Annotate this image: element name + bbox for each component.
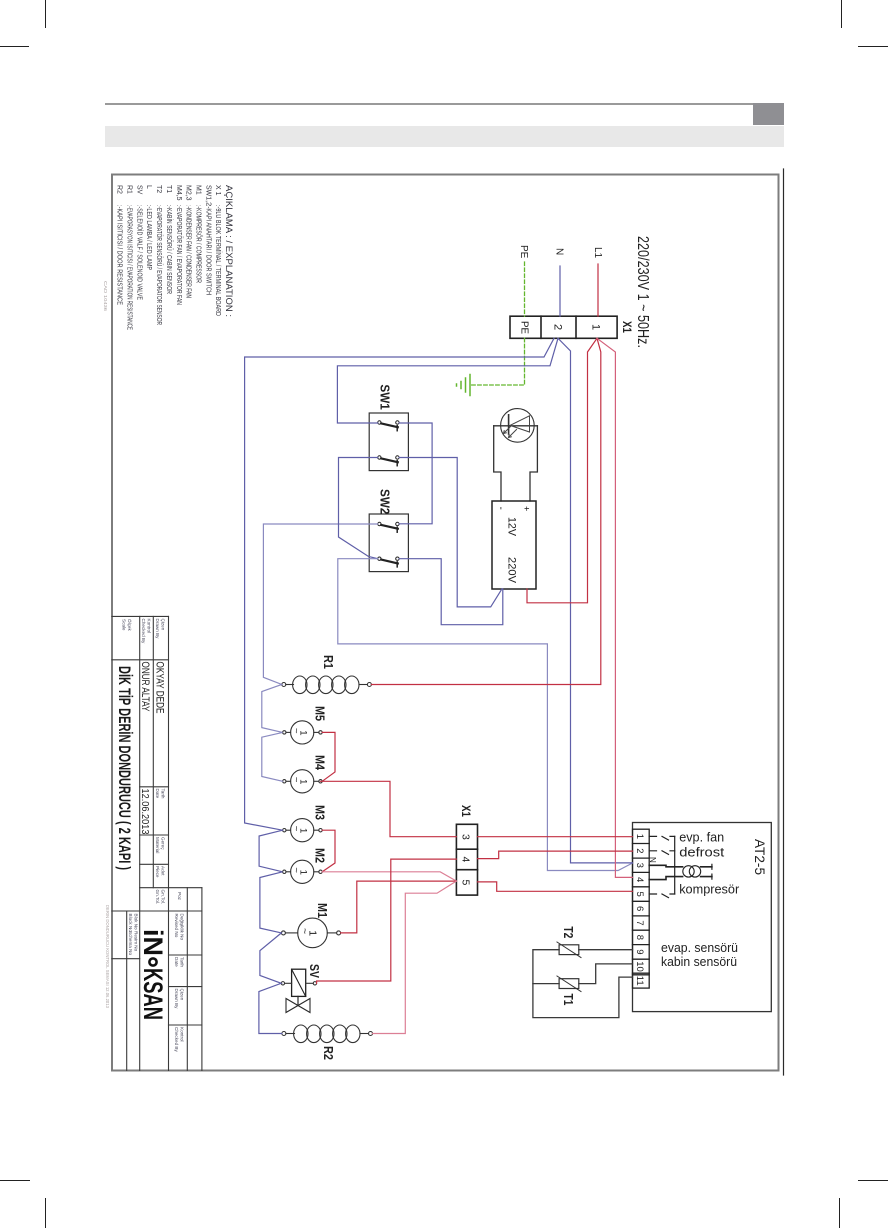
svg-text:Schema No: Schema No [128, 931, 133, 955]
battery 12V/220V box [492, 501, 536, 589]
wire SW1 pole2 to battery lamp loop [399, 458, 502, 607]
wire T2 T1 common to terminal 11 [533, 950, 633, 1018]
title block field labels [122, 619, 185, 1053]
svg-text:M2,3: M2,3 [185, 185, 192, 201]
svg-text:PE: PE [519, 321, 530, 334]
svg-text:M4: M4 [313, 755, 327, 770]
svg-text::-EVAPORASYON ISITICISI / EVAP: :-EVAPORASYON ISITICISI / EVAPORATION RE… [126, 205, 133, 330]
svg-text:DİK TİP DERİN DONDURUCU ( 2 KA: DİK TİP DERİN DONDURUCU ( 2 KAPI ) [115, 666, 134, 870]
relay contact for terminal 5 [649, 894, 675, 898]
crop mark top-left horizontal [0, 46, 29, 47]
svg-text:ONUR ALTAY: ONUR ALTAY [139, 662, 151, 712]
svg-text:Piece: Piece [155, 866, 160, 878]
svg-text:R2: R2 [321, 1046, 335, 1060]
svg-text:T2: T2 [155, 185, 162, 193]
lamp holder outline [530, 426, 537, 501]
transformer primary leads from terminals 3 and 4 [649, 865, 682, 867]
svg-text:Kontrol: Kontrol [147, 619, 152, 634]
header dark box [753, 103, 784, 125]
svg-text::-KAPI ANAHTARI / DOOR SWITCH: :-KAPI ANAHTARI / DOOR SWITCH [204, 205, 211, 295]
drawing sheet frame [112, 175, 779, 1071]
crop mark top-right vertical [841, 0, 842, 28]
svg-text:M3: M3 [313, 805, 327, 820]
SW1 pole 1 contact [378, 421, 399, 431]
wire N X1-2 to motor chain bus [245, 338, 554, 830]
svg-text:Poz: Poz [177, 892, 182, 901]
svg-text:+: + [522, 506, 532, 511]
LED symbol triangle [510, 416, 530, 432]
svg-text:R1: R1 [126, 185, 133, 194]
page edge line [783, 169, 785, 1075]
crop mark top-left vertical [45, 0, 46, 28]
svg-text:M4,5: M4,5 [175, 185, 182, 201]
svg-text:~: ~ [291, 867, 302, 873]
svg-text:4: 4 [634, 877, 645, 882]
svg-text:L: L [145, 185, 152, 189]
svg-text:12.06.2013: 12.06.2013 [139, 789, 151, 835]
SW2 pole 1 contact [378, 522, 399, 532]
motor M4 [283, 770, 323, 793]
svg-text:Checked By: Checked By [141, 619, 146, 644]
header light band [105, 126, 784, 147]
svg-text:SV: SV [135, 185, 142, 195]
AT2-5 terminal strip [633, 829, 650, 988]
svg-text:Tarih: Tarih [180, 957, 185, 967]
controller AT2-5 box [633, 823, 772, 1012]
svg-text:Adet: Adet [161, 866, 166, 876]
INOKSAN logo [138, 929, 168, 1020]
svg-text:SW1: SW1 [378, 384, 392, 409]
motor M1 compressor [281, 918, 340, 948]
title block grid lines [112, 616, 202, 1070]
svg-text:Material: Material [155, 837, 160, 853]
svg-text:M2: M2 [313, 848, 327, 863]
wire R2 to X1-5 [373, 881, 457, 1033]
wire T1 to AT2-5 terminal 10 [579, 964, 633, 984]
svg-text:6: 6 [634, 906, 645, 911]
svg-text:M5: M5 [313, 706, 327, 721]
wire X1-4 to AT2-5 terminal 2 [478, 851, 633, 859]
wire SW1 pole1 to SW2 pole1 [399, 423, 432, 524]
crop mark top-right horizontal [858, 46, 888, 47]
svg-text:3: 3 [460, 834, 472, 840]
svg-text:evp. fan: evp. fan [679, 830, 724, 845]
svg-text:T2: T2 [561, 926, 575, 938]
crop mark bottom-right horizontal [858, 1180, 888, 1181]
resistor R1 coil [282, 676, 372, 694]
svg-text:5: 5 [460, 880, 472, 886]
svg-text:Date: Date [174, 957, 179, 967]
svg-text::-KOMPRESÖR / COMPRESSOR: :-KOMPRESÖR / COMPRESSOR [195, 205, 203, 283]
motor M2 [283, 860, 323, 883]
svg-text:Drawn By: Drawn By [155, 619, 160, 640]
ground earth symbol [457, 375, 471, 396]
svg-text:Ölçek: Ölçek [127, 619, 133, 631]
svg-text:X1: X1 [459, 805, 473, 817]
svg-text:~: ~ [291, 728, 302, 734]
wire N chain M3 M2 M1 SV R2 [259, 830, 283, 1033]
wire T1 to common bus [533, 983, 559, 985]
svg-text:Çizen: Çizen [180, 989, 185, 1001]
svg-text:AT2-5: AT2-5 [752, 839, 767, 875]
svg-text:4: 4 [460, 857, 472, 863]
svg-text:X1: X1 [620, 321, 634, 333]
svg-text:Date: Date [155, 789, 160, 799]
wire AT2-5 terminal 9 to T2 [579, 949, 633, 951]
svg-text:3: 3 [634, 863, 645, 868]
wire M2 to X1-5 [322, 872, 456, 881]
svg-text:CAD 10436: CAD 10436 [103, 281, 108, 312]
svg-text:11: 11 [634, 976, 645, 986]
svg-text:5: 5 [634, 892, 645, 897]
wire L1 X1-1 to R1 [371, 338, 600, 684]
svg-text:SV: SV [307, 964, 321, 979]
svg-text:Değişiklik No: Değişiklik No [180, 914, 185, 941]
svg-text:~: ~ [291, 826, 302, 832]
relay contact for terminal 2 [649, 851, 675, 855]
svg-text:Drawn By: Drawn By [174, 989, 179, 1010]
svg-text:~: ~ [299, 928, 311, 934]
LED lamp L circle [501, 409, 535, 443]
svg-text:T1: T1 [561, 994, 575, 1006]
svg-text:X 1: X 1 [214, 185, 221, 196]
svg-text::-SELENOİD VALF / SOLENOID VAL: :-SELENOİD VALF / SOLENOID VALVE [135, 205, 144, 300]
svg-text:Revised No: Revised No [174, 914, 179, 938]
wire SV to X1-4 [317, 859, 457, 983]
wire M3 to M2 [322, 830, 335, 872]
svg-text:Gereç: Gereç [161, 837, 166, 850]
wire PE cell to earth dashed [471, 338, 525, 385]
svg-text:8: 8 [634, 935, 645, 940]
wire L1 to X1-1 [597, 264, 599, 316]
wire M1 to X1-5 [341, 881, 457, 933]
header rule [105, 103, 753, 105]
svg-text::-KAPI ISITICISI / DOOR RESIST: :-KAPI ISITICISI / DOOR RESISTANCE [116, 205, 123, 305]
wire SW2 pole1 to R1 M5 M4 chain [262, 524, 378, 781]
svg-text::-EVAPORATÖR SENSÖRÜ / EVAPORA: :-EVAPORATÖR SENSÖRÜ / EVAPORATOR SENSOR [155, 205, 163, 325]
switch SW1 box [369, 413, 408, 471]
crop mark bottom-right vertical [839, 1198, 840, 1228]
svg-text::-KONDENSER FAN / CONDENSER FA: :-KONDENSER FAN / CONDENSER FAN [185, 205, 192, 298]
svg-text:~: ~ [291, 777, 302, 783]
svg-text:N: N [648, 857, 657, 863]
wire N X1-2 to AT2-5 terminal 3 [558, 338, 633, 863]
svg-text:R1: R1 [321, 655, 335, 669]
motor M5 [283, 721, 323, 744]
wire M5 M4 to X1-3 [321, 732, 457, 836]
wire PE to X1-PE green dashed [524, 262, 526, 316]
crop mark bottom-left horizontal [0, 1180, 30, 1181]
svg-text:12V: 12V [506, 517, 518, 537]
wire SW2 pole2 to AT2-5 terminal 3 [338, 559, 633, 871]
wire SW1 pole2 to SW2 pole2 [339, 458, 378, 559]
svg-text:Block No: Block No [128, 914, 133, 933]
svg-text:DERIN DONDURUCU KONTROL SEMASI: DERIN DONDURUCU KONTROL SEMASI 12.06.201… [105, 905, 110, 1008]
svg-text:7: 7 [634, 920, 645, 925]
terminal block X1 (3,4,5) [456, 824, 477, 895]
svg-text:SW1,2: SW1,2 [204, 185, 211, 206]
svg-text:Gn.Tol.: Gn.Tol. [161, 890, 166, 905]
svg-text:L1: L1 [592, 247, 603, 259]
LED lamp lead line [494, 425, 538, 427]
svg-text:T1: T1 [165, 185, 172, 193]
svg-text::-KABİN SENSÖRÜ / CABIN SENSOR: :-KABİN SENSÖRÜ / CABIN SENSOR [165, 205, 174, 294]
svg-text:1: 1 [634, 834, 645, 839]
svg-text:defrost: defrost [679, 845, 724, 860]
terminal block X1 (mains) [510, 316, 617, 338]
relay contact for terminal 1 [649, 836, 675, 840]
SV terminals [281, 982, 284, 985]
SV valve bowtie symbol [286, 999, 310, 1013]
svg-text:OKYAY DEDE: OKYAY DEDE [154, 662, 166, 714]
svg-text:Çizen: Çizen [161, 619, 166, 631]
svg-text:KSAN: KSAN [138, 968, 168, 1020]
wire L1 X1-1 to AT2-5 terminal 4 [597, 338, 633, 877]
svg-text:kompresör: kompresör [679, 882, 740, 897]
svg-text:Kontrol: Kontrol [180, 1027, 185, 1042]
transformer symbol circles [683, 866, 694, 877]
svg-text:9: 9 [634, 949, 645, 954]
relay common bus [674, 836, 676, 894]
wire N X1-2 to SW1 pole1 [337, 338, 558, 423]
svg-text:M1: M1 [315, 903, 329, 918]
AT2-5 terminal numbers [634, 834, 645, 986]
solenoid valve SV box [292, 969, 306, 996]
svg-text:M1: M1 [195, 185, 202, 195]
svg-text:2: 2 [552, 324, 564, 330]
LED symbol arrows [509, 430, 517, 438]
wire N to X1-2 [559, 266, 561, 316]
svg-text:SW2: SW2 [378, 489, 392, 514]
wire X1-5 to AT2-5 terminal 5 [478, 882, 633, 891]
sensor T1 thermistor [559, 979, 579, 989]
wire L1 X1-1 to battery plus [527, 338, 597, 603]
SW2 pole 2 contact [378, 557, 399, 567]
svg-text:iN: iN [138, 929, 168, 956]
svg-text:Tarih: Tarih [161, 789, 166, 799]
svg-text:N: N [554, 248, 565, 255]
svg-text:AÇIKLAMA : / EXPLANATION :: AÇIKLAMA : / EXPLANATION : [224, 185, 234, 317]
transformer secondary leads [701, 867, 712, 877]
sensor T2 thermistor [559, 945, 579, 955]
svg-text::-LED LAMBA / LED LAMP: :-LED LAMBA / LED LAMP [145, 205, 152, 270]
SV box diagonal [292, 969, 306, 996]
svg-text::-EVAPORATÖR FAN / EVAPORATOR: :-EVAPORATÖR FAN / EVAPORATOR FAN [175, 205, 183, 305]
motor M3 [283, 819, 323, 842]
SW1 pole 2 contact [378, 456, 399, 466]
svg-text:PE: PE [518, 245, 529, 259]
svg-text:Gn.Tol.: Gn.Tol. [155, 890, 160, 905]
svg-text::-9LU BLOK TERMİNAL / TERMINAL: :-9LU BLOK TERMİNAL / TERMINAL BOARD [214, 205, 223, 316]
wire battery minus to SW2 pole2 [399, 559, 503, 625]
svg-text:220V: 220V [506, 557, 518, 584]
svg-text:Blok No: Blok No [134, 914, 139, 931]
svg-text:Scale: Scale [122, 619, 127, 631]
svg-text:R2: R2 [116, 185, 123, 194]
svg-text:-: - [495, 507, 506, 510]
switch SW2 box [369, 514, 408, 572]
svg-text:2: 2 [634, 848, 645, 853]
svg-text:220/230V 1 ~ 50Hz.: 220/230V 1 ~ 50Hz. [634, 236, 651, 348]
svg-text:1: 1 [590, 324, 602, 330]
svg-text:10: 10 [634, 961, 645, 972]
wire X1-3 to AT2-5 terminal 1 [478, 836, 633, 838]
svg-text:Checked By: Checked By [174, 1027, 179, 1052]
svg-text:evap. sensörü: evap. sensörü [661, 940, 738, 955]
crop mark bottom-left vertical [45, 1198, 46, 1228]
svg-text:kabin sensörü: kabin sensörü [661, 954, 737, 969]
LED symbol cathode bar [508, 415, 510, 434]
resistor R2 coil [282, 1025, 373, 1043]
legend text block [116, 185, 234, 330]
